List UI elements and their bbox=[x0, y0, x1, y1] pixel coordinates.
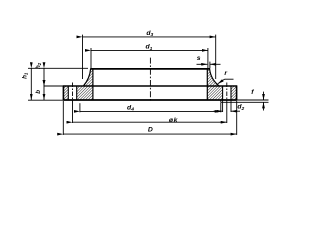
svg-text:D: D bbox=[148, 127, 153, 134]
svg-text:b: b bbox=[35, 90, 42, 94]
svg-text:øk: øk bbox=[169, 117, 179, 124]
svg-text:s: s bbox=[197, 55, 201, 62]
svg-text:r: r bbox=[224, 70, 227, 77]
